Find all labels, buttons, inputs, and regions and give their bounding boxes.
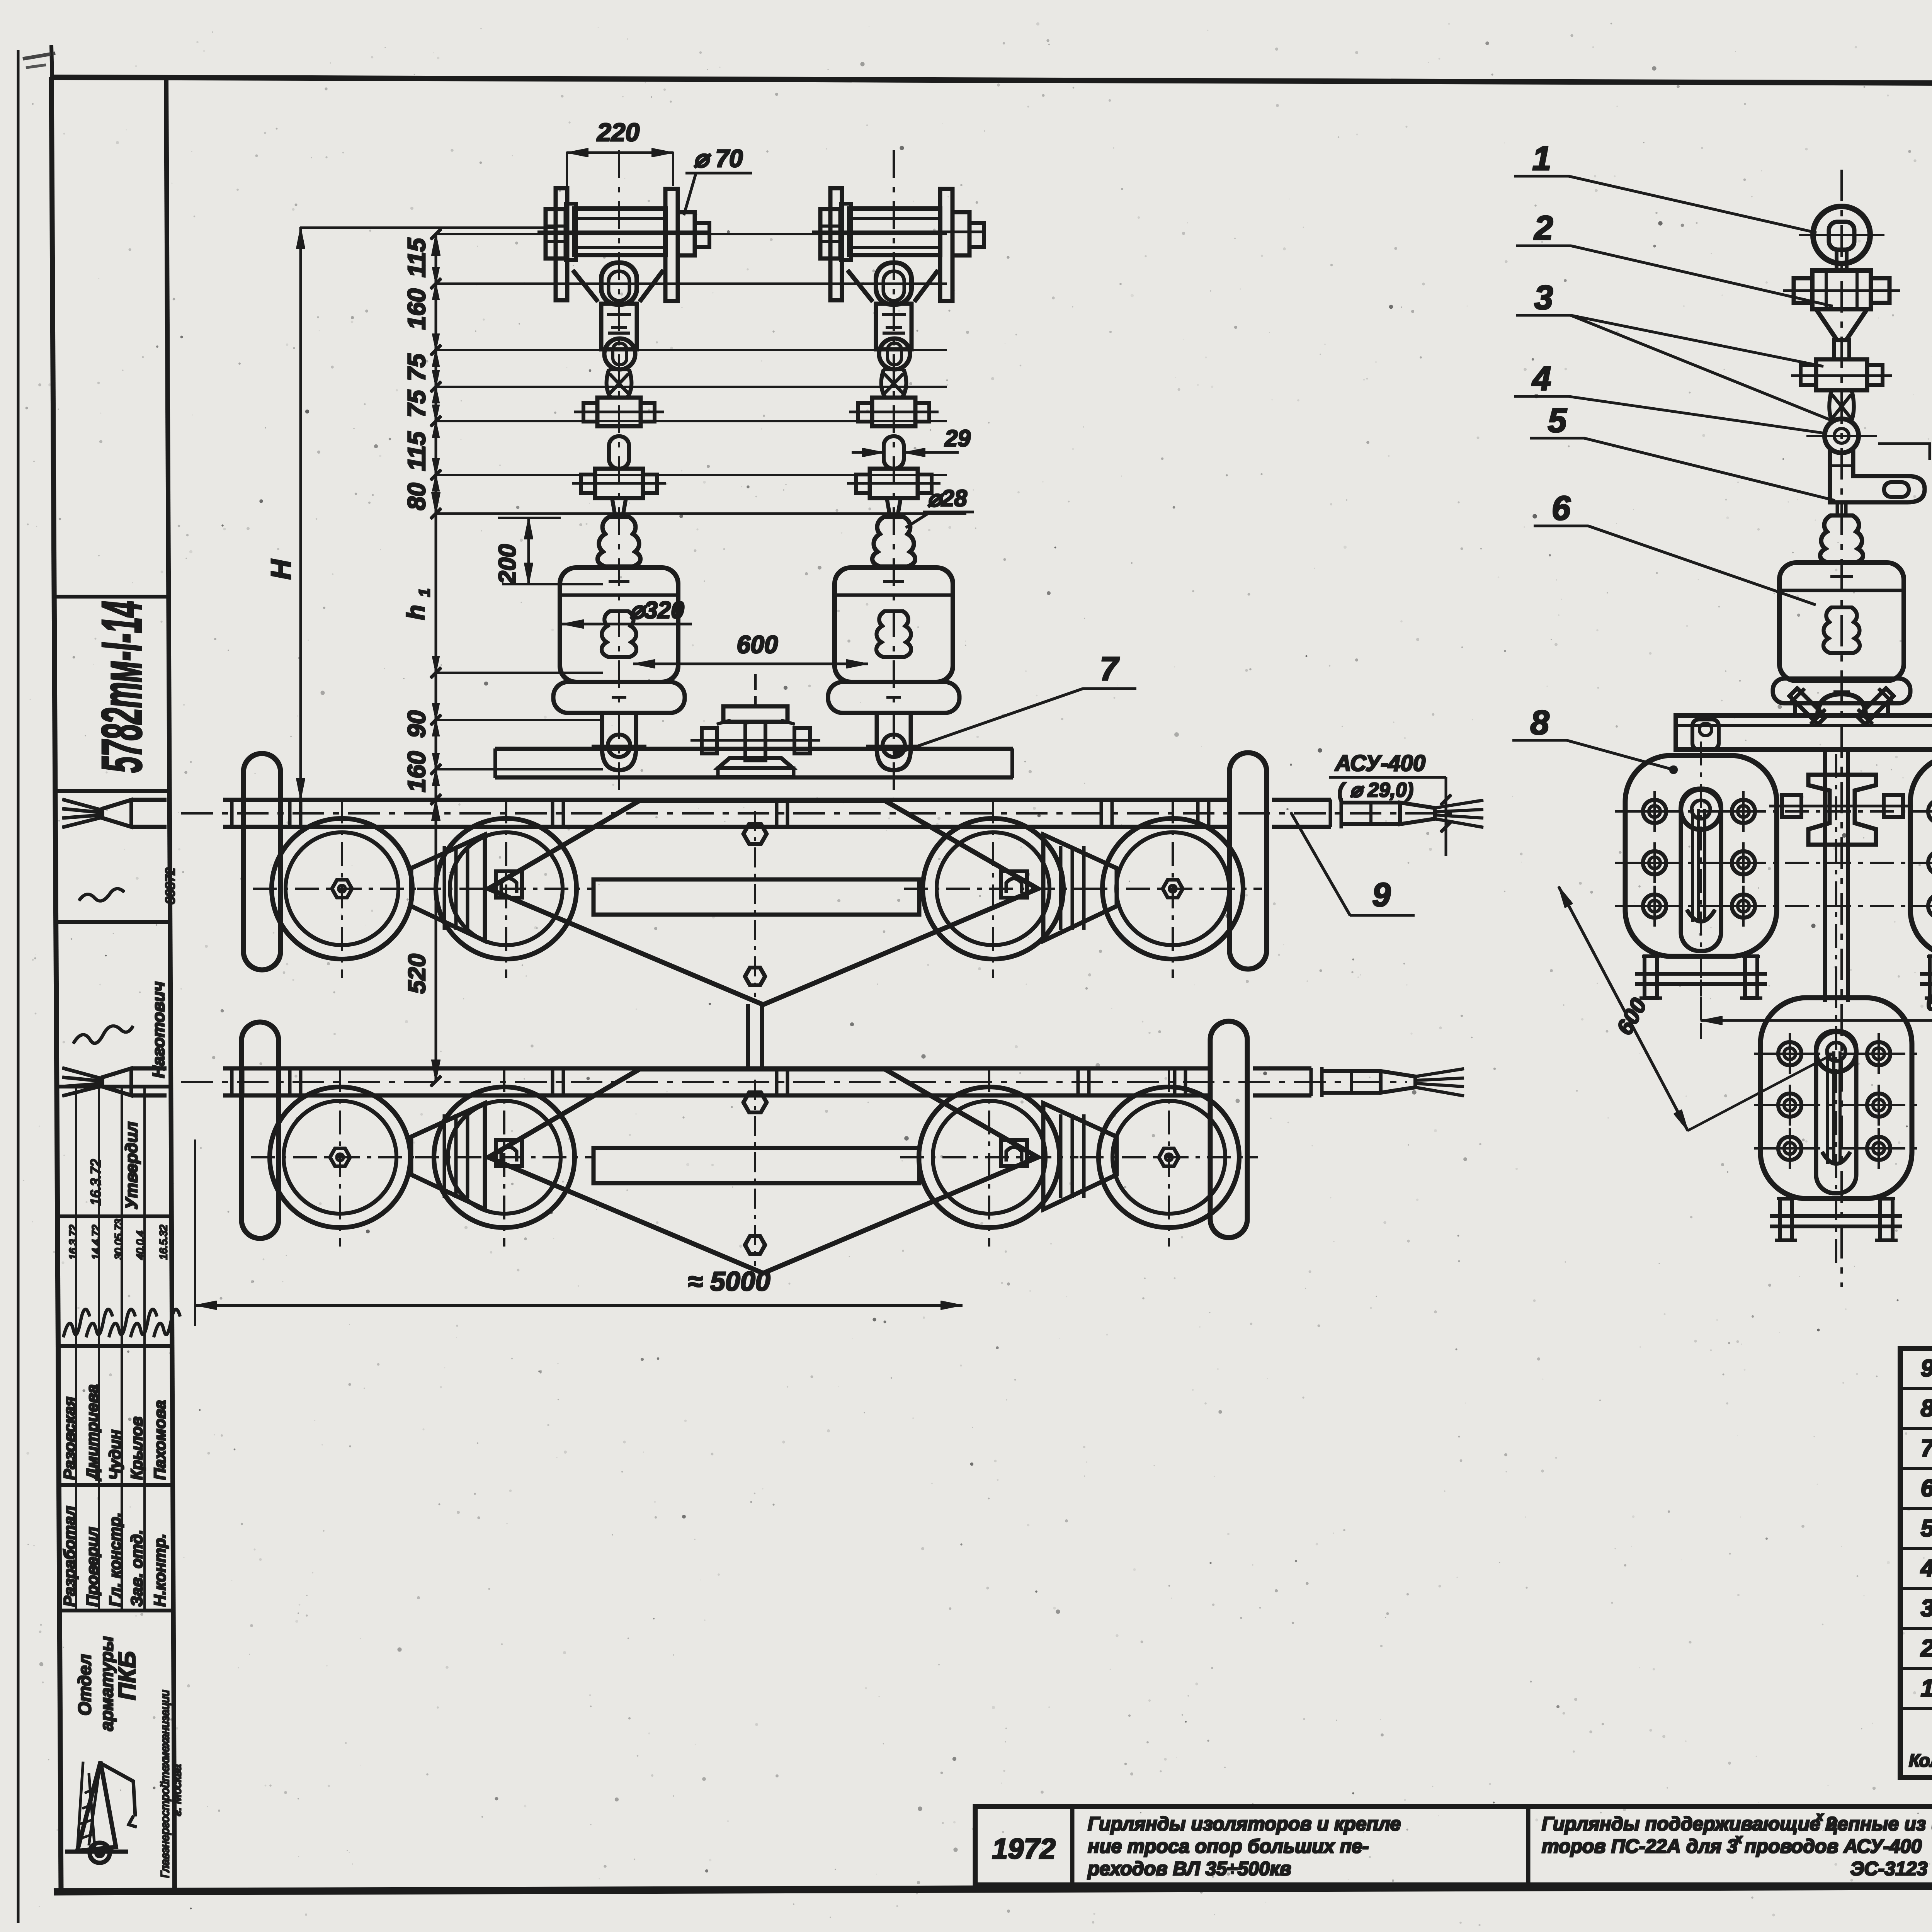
svg-text:9: 9 [1372,876,1391,913]
svg-text:Зав. отд.: Зав. отд. [128,1530,146,1607]
svg-text:160: 160 [403,751,430,793]
svg-text:Пахомова: Пахомова [151,1400,169,1480]
svg-text:75: 75 [403,353,430,381]
svg-text:3: 3 [1534,278,1553,316]
svg-text:Наготович: Наготович [149,981,168,1078]
svg-text:80: 80 [403,483,430,510]
svg-text:цепные из изоля-: цепные из изоля- [1826,1813,1932,1835]
svg-text:Н: Н [266,559,297,580]
svg-text:Кол.: Кол. [1909,1750,1932,1770]
svg-text:75: 75 [403,389,430,418]
svg-text:29: 29 [944,425,971,451]
svg-text:6: 6 [1921,1475,1932,1502]
svg-text:4: 4 [1920,1555,1932,1582]
svg-text:16.3.72: 16.3.72 [67,1225,79,1260]
svg-text:3: 3 [1921,1595,1932,1622]
svg-text:г. Москва: г. Москва [171,1764,184,1816]
svg-text:h: h [402,605,430,620]
svg-text:≈ 5000: ≈ 5000 [688,1266,770,1296]
svg-text:Гирлянды изоляторов и крепле: Гирлянды изоляторов и крепле [1088,1813,1401,1835]
svg-text:Разовская: Разовская [60,1397,78,1480]
svg-text:1: 1 [1921,1675,1932,1702]
svg-text:Крылов: Крылов [128,1417,146,1480]
svg-text:проводов АСУ-400: проводов АСУ-400 [1745,1835,1922,1857]
svg-text:⌀ 70: ⌀ 70 [694,145,743,172]
svg-text:Проверил: Проверил [83,1527,101,1607]
svg-text:5: 5 [1548,401,1567,439]
svg-text:16.3.72: 16.3.72 [88,1159,104,1206]
svg-text:520: 520 [404,954,430,993]
svg-text:14.4.72: 14.4.72 [90,1225,102,1260]
svg-text:Главэнергостройтехмеханизации: Главэнергостройтехмеханизации [159,1690,172,1878]
svg-text:600: 600 [737,631,778,658]
svg-text:Дмитриева: Дмитриева [83,1384,101,1481]
svg-text:х: х [1734,1832,1743,1846]
svg-text:1: 1 [416,588,433,597]
svg-text:30872: 30872 [163,867,178,904]
svg-text:реходов ВЛ 35÷500кв: реходов ВЛ 35÷500кв [1087,1858,1291,1879]
svg-text:7: 7 [1921,1435,1932,1462]
svg-text:4: 4 [1532,359,1551,398]
svg-text:9: 9 [1921,1355,1932,1382]
svg-text:Гирлянды поддерживающие 2: Гирлянды поддерживающие 2 [1542,1813,1837,1835]
svg-text:⌀28: ⌀28 [927,485,967,511]
svg-text:7: 7 [1100,650,1120,687]
svg-text:5: 5 [1921,1515,1932,1542]
svg-text:115: 115 [403,238,430,277]
svg-text:1972: 1972 [992,1833,1056,1865]
svg-text:Отдел: Отдел [75,1654,95,1716]
svg-text:220: 220 [596,118,639,146]
svg-text:( ⌀ 29,0): ( ⌀ 29,0) [1338,779,1413,801]
svg-text:200: 200 [494,544,521,584]
svg-text:торов ПС-22А для 3: торов ПС-22А для 3 [1542,1835,1738,1857]
svg-text:АСУ-400: АСУ-400 [1334,751,1425,776]
svg-text:2: 2 [1534,209,1553,247]
svg-text:ПКБ: ПКБ [114,1651,141,1700]
svg-text:Гл. констр.: Гл. констр. [106,1512,124,1607]
svg-text:ние троса опор больших пе-: ние троса опор больших пе- [1088,1835,1369,1857]
svg-text:Чудин: Чудин [106,1430,124,1480]
svg-text:5782тм-I-14: 5782тм-I-14 [90,601,154,773]
svg-text:8: 8 [1531,703,1549,742]
svg-text:Н.контр.: Н.контр. [151,1534,169,1607]
svg-text:⌀320: ⌀320 [630,597,684,624]
svg-text:16.5.32: 16.5.32 [158,1225,169,1260]
svg-text:ЭС-3123 ÷ ЭС-3139: ЭС-3123 ÷ ЭС-3139 [1850,1858,1932,1879]
svg-text:160: 160 [403,289,430,330]
svg-text:40.0.4: 40.0.4 [134,1231,146,1260]
svg-text:90: 90 [403,710,430,738]
svg-text:600: 600 [1926,990,1932,1015]
svg-text:115: 115 [403,431,430,471]
svg-text:2: 2 [1920,1635,1932,1662]
svg-text:х: х [1815,1809,1824,1824]
svg-text:8: 8 [1921,1395,1932,1422]
svg-text:1: 1 [1532,139,1551,177]
svg-text:6: 6 [1552,489,1571,527]
svg-text:30.05.73: 30.05.73 [113,1219,124,1260]
svg-text:Разработал: Разработал [60,1506,78,1607]
svg-text:Утвердил: Утвердил [122,1122,141,1209]
